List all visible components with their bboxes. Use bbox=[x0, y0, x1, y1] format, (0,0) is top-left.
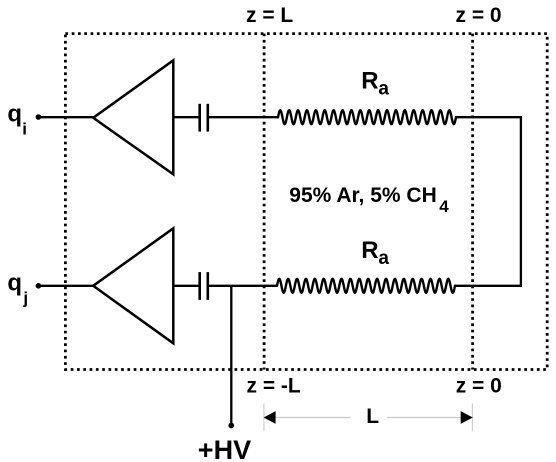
capacitor C2 (coupling, bottom) bbox=[198, 272, 201, 300]
svg-text:95% Ar, 5% CH: 95% Ar, 5% CH bbox=[289, 184, 436, 207]
svg-text:4: 4 bbox=[439, 197, 449, 216]
op-amp A1 (preamplifier, top) bbox=[93, 60, 173, 174]
svg-text:j: j bbox=[22, 288, 28, 307]
svg-text:q: q bbox=[7, 269, 22, 296]
svg-text:a: a bbox=[378, 79, 389, 100]
svg-text:z = L: z = L bbox=[246, 4, 293, 27]
svg-text:i: i bbox=[22, 120, 27, 139]
svg-text:R: R bbox=[361, 237, 378, 264]
capacitor C1 (coupling, top) bbox=[198, 104, 201, 132]
op-amp A2 (preamplifier, bottom) bbox=[93, 228, 173, 343]
svg-text:R: R bbox=[361, 68, 378, 95]
dimension tick at z = 0 bbox=[471, 404, 473, 432]
wire q_j to amplifier input bbox=[39, 285, 94, 287]
node q_j input terminal dot bbox=[36, 283, 42, 289]
dimension arrowhead right bbox=[461, 411, 473, 424]
svg-text:z = 0: z = 0 bbox=[456, 4, 502, 27]
resistor Ra (bottom anode wire) bbox=[277, 279, 455, 293]
wire amplifier A2 output to capacitor bbox=[173, 285, 199, 287]
anode wire region boundary z = 0 (dotted line) bbox=[471, 34, 474, 370]
svg-text:a: a bbox=[378, 248, 389, 269]
resistor Ra (top anode wire) bbox=[278, 110, 456, 124]
svg-text:+HV: +HV bbox=[198, 435, 251, 462]
svg-text:z = 0: z = 0 bbox=[456, 375, 502, 398]
node +HV terminal dot bbox=[228, 423, 234, 429]
wire capacitor C2 to resistor Ra (bottom), junction with HV feed bbox=[209, 285, 278, 287]
wire HV feed (junction to +HV terminal) bbox=[230, 286, 232, 426]
node q_i input terminal dot bbox=[36, 114, 42, 120]
svg-text:L: L bbox=[366, 405, 379, 428]
wire resistor Ra (top) to right side, down to bottom branch bbox=[455, 117, 521, 286]
anode wire region boundary z = L / z = -L (dotted line) bbox=[263, 34, 266, 370]
dimension line L (left segment) bbox=[275, 417, 351, 419]
dimension tick at z = -L bbox=[263, 404, 265, 432]
wire q_i to amplifier input bbox=[39, 116, 94, 118]
svg-text:q: q bbox=[7, 101, 22, 128]
svg-text:z = -L: z = -L bbox=[247, 374, 301, 397]
dimension arrowhead left bbox=[264, 411, 276, 424]
dimension line L (right segment) bbox=[387, 417, 462, 419]
wire capacitor C1 to resistor Ra (top) bbox=[209, 116, 279, 118]
detector outer boundary (dotted box) bbox=[65, 34, 547, 370]
wire amplifier A1 output to capacitor bbox=[173, 116, 199, 118]
